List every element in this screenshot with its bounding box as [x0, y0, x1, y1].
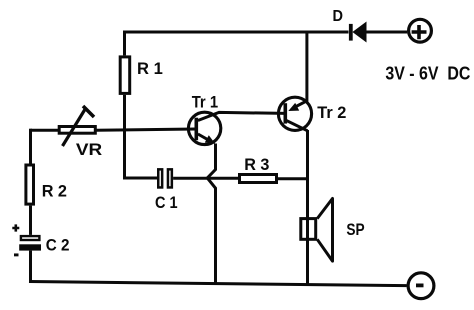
Tr2 emitter arrowhead [288, 103, 299, 111]
svg-text:VR: VR [76, 140, 102, 159]
diode D cathode bar [349, 24, 353, 41]
capacitor C2 top plate [21, 236, 40, 240]
battery plus terminal [409, 19, 432, 42]
variable resistor VR body [59, 127, 95, 134]
wire top rail down to Tr2 emitter [305, 32, 308, 102]
label C2 plus [12, 224, 19, 231]
wire R1 top [123, 32, 126, 55]
svg-text:3V - 6V DC: 3V - 6V DC [385, 63, 470, 84]
svg-text:Tr 2: Tr 2 [317, 103, 346, 122]
svg-text:R 1: R 1 [137, 59, 163, 78]
VR arrow tee bar [83, 106, 94, 117]
capacitor C2 bottom plate [19, 244, 41, 250]
wire C1 to emitter junction [173, 177, 238, 180]
speaker SP horn [317, 199, 332, 262]
svg-text:SP: SP [346, 220, 364, 239]
transistor Tr2 circle [278, 97, 311, 130]
resistor R1 [120, 57, 130, 94]
wire left vertical to R2 [29, 129, 32, 164]
wire base rail VR to Tr1 [97, 129, 197, 130]
wire Tr2 collector down through speaker to bottom rail [306, 130, 309, 285]
VR arrow diagonal [63, 109, 86, 147]
wire C2 to bottom rail [29, 251, 32, 282]
wire R2 to C2 [29, 206, 32, 235]
wire R1 bottom to C1 corner [125, 95, 158, 178]
wire R3 to Tr2 collector line [278, 177, 308, 180]
Tr1 emitter line [198, 134, 211, 141]
Tr2 emitter line from top rail [296, 101, 307, 107]
Tr2 base bar [283, 103, 287, 123]
Tr1 emitter arrowhead [205, 135, 215, 143]
speaker SP coil box [301, 219, 316, 240]
wire left drop from VR line [31, 129, 60, 132]
plus sign [412, 25, 427, 39]
svg-text:C 2: C 2 [46, 236, 70, 255]
capacitor C1 left plate [158, 169, 162, 187]
wire Tr1 emitter down with jog [207, 144, 215, 284]
Tr1 collector line to Tr2 base [198, 112, 286, 120]
resistor R2 [26, 165, 34, 204]
wire top rail [123, 31, 349, 34]
svg-text:R 3: R 3 [244, 155, 269, 174]
wire diode to plus terminal [366, 31, 408, 34]
transistor Tr1 circle [188, 112, 220, 144]
Tr2 collector line [286, 120, 308, 131]
svg-text:C 1: C 1 [155, 193, 178, 212]
capacitor C1 right plate [168, 169, 172, 187]
svg-text:Tr 1: Tr 1 [192, 93, 218, 112]
svg-text:D: D [333, 8, 344, 25]
label C2 minus [14, 253, 19, 256]
battery minus terminal [408, 273, 434, 299]
resistor R3 [240, 175, 277, 183]
wire bottom rail [29, 282, 407, 286]
minus sign [416, 283, 424, 287]
Tr1 base bar [195, 118, 199, 141]
diode D triangle [352, 22, 366, 43]
svg-text:R 2: R 2 [42, 182, 67, 201]
